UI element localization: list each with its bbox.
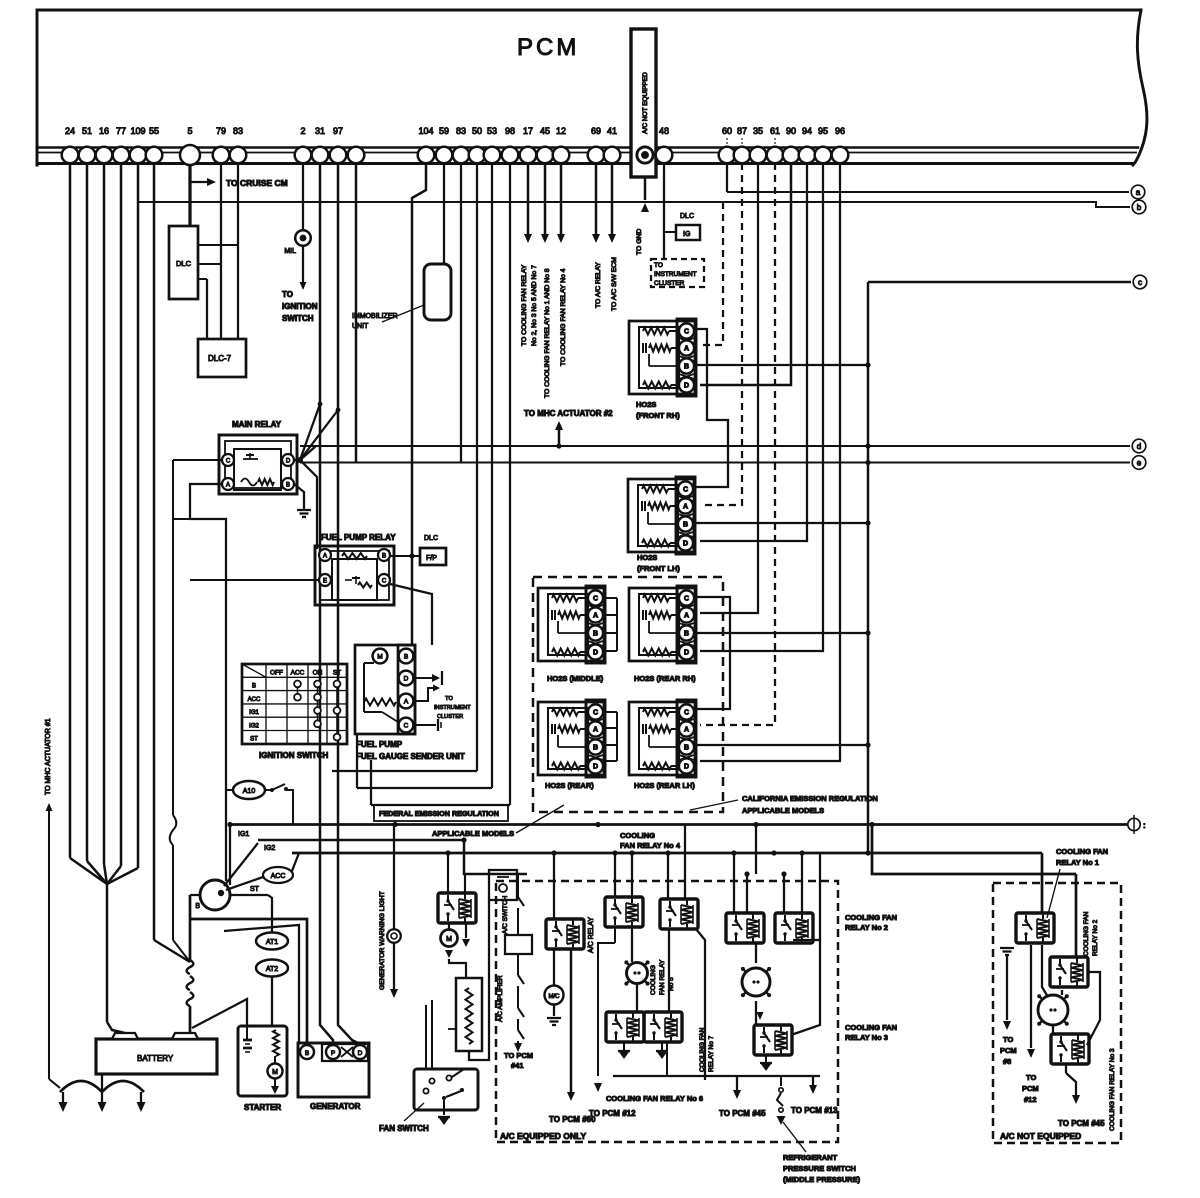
svg-text:D: D — [286, 458, 291, 464]
svg-text:P: P — [331, 1050, 335, 1057]
svg-text:D: D — [684, 650, 689, 657]
svg-text:M/C: M/C — [549, 994, 561, 1000]
svg-text:COOLING FAN: COOLING FAN — [845, 913, 897, 922]
svg-text:B: B — [684, 745, 689, 752]
svg-text:77: 77 — [116, 126, 126, 136]
svg-text:D: D — [683, 541, 688, 548]
svg-text:M: M — [446, 936, 452, 943]
svg-text:17: 17 — [523, 126, 533, 136]
svg-text:INSTRUMENT: INSTRUMENT — [654, 271, 697, 278]
svg-text:ST: ST — [250, 886, 260, 893]
svg-text:D: D — [593, 764, 598, 771]
svg-text:(MIDDLE PRESSURE): (MIDDLE PRESSURE) — [783, 1175, 861, 1184]
svg-text:104: 104 — [418, 126, 433, 136]
svg-text:ST: ST — [333, 670, 341, 677]
svg-text:C: C — [684, 596, 689, 603]
svg-text:C: C — [684, 710, 689, 717]
svg-text:RELAY No 3: RELAY No 3 — [845, 1033, 888, 1042]
svg-text:61: 61 — [770, 126, 780, 136]
svg-text:B: B — [593, 745, 598, 752]
svg-text:TO: TO — [1003, 1035, 1013, 1044]
svg-text:TO COOLING FAN RELAY No 4: TO COOLING FAN RELAY No 4 — [560, 268, 567, 366]
svg-text:C: C — [684, 329, 689, 336]
svg-text:IG: IG — [683, 231, 690, 238]
svg-text:INSTRUMENT: INSTRUMENT — [434, 705, 471, 711]
svg-text:PCM: PCM — [1022, 1084, 1039, 1093]
svg-text:TO: TO — [1026, 1073, 1036, 1082]
svg-text:STARTER: STARTER — [244, 1103, 281, 1112]
svg-text:FAN RELAY: FAN RELAY — [659, 959, 666, 995]
svg-text:A: A — [684, 613, 689, 620]
svg-text:87: 87 — [737, 126, 747, 136]
svg-text:12: 12 — [556, 126, 566, 136]
svg-text:COOLING FAN: COOLING FAN — [1083, 911, 1090, 956]
svg-text:A/C SWITCH: A/C SWITCH — [502, 895, 509, 934]
svg-text:CALIFORNIA EMISSION REGULATION: CALIFORNIA EMISSION REGULATION — [742, 794, 878, 803]
svg-text:IGNITION: IGNITION — [282, 302, 318, 311]
svg-text:TO A/C RELAY: TO A/C RELAY — [595, 262, 602, 308]
svg-text:FEDERAL EMISSION REGULATION: FEDERAL EMISSION REGULATION — [379, 809, 499, 818]
svg-text:M: M — [377, 654, 382, 661]
svg-text:B: B — [683, 522, 688, 529]
svg-text:D: D — [684, 383, 689, 390]
svg-text:APPLICABLE MODELS: APPLICABLE MODELS — [742, 806, 824, 815]
svg-text:HO2S (REAR LH): HO2S (REAR LH) — [634, 781, 695, 790]
svg-text:C: C — [226, 458, 231, 464]
svg-text:TO: TO — [654, 262, 663, 269]
svg-text:SWITCH: SWITCH — [282, 314, 314, 323]
svg-text:5: 5 — [187, 126, 192, 136]
svg-text:DLC: DLC — [680, 213, 694, 220]
svg-text:69: 69 — [591, 126, 601, 136]
svg-text:D: D — [684, 764, 689, 771]
svg-text:TO MHC ACTUATOR #1: TO MHC ACTUATOR #1 — [45, 718, 52, 795]
svg-text:BATTERY: BATTERY — [137, 1054, 174, 1063]
svg-text:AT1: AT1 — [266, 939, 278, 946]
svg-text:2: 2 — [300, 126, 305, 136]
svg-text:RELAY No 7: RELAY No 7 — [708, 1035, 715, 1072]
svg-text:#8: #8 — [1003, 1057, 1011, 1066]
svg-text:CLUSTER: CLUSTER — [437, 714, 463, 720]
svg-text:DLC: DLC — [424, 535, 438, 542]
svg-text:No 2, No 3 No 5 AND No 7: No 2, No 3 No 5 AND No 7 — [531, 265, 538, 346]
svg-text:A: A — [684, 346, 689, 353]
svg-text:C: C — [382, 578, 387, 584]
svg-text:B: B — [305, 1050, 309, 1057]
svg-text:A: A — [683, 504, 688, 511]
svg-text:e: e — [1137, 458, 1142, 467]
svg-text:GENERATOR WARNING LIGHT: GENERATOR WARNING LIGHT — [379, 891, 386, 990]
svg-text:REFRIGERANT: REFRIGERANT — [783, 1153, 838, 1162]
svg-text:RELAY No 2: RELAY No 2 — [845, 923, 888, 932]
svg-text:C: C — [404, 723, 409, 730]
svg-text:IG2: IG2 — [264, 845, 275, 852]
svg-text:A/C NOT EQUIPPED: A/C NOT EQUIPPED — [642, 72, 649, 134]
svg-text:COOLING FAN: COOLING FAN — [845, 1023, 897, 1032]
svg-text:COOLING: COOLING — [620, 831, 655, 840]
svg-text:50: 50 — [472, 126, 482, 136]
svg-text:TO COOLING FAN RELAY: TO COOLING FAN RELAY — [521, 264, 528, 346]
svg-text:C: C — [683, 487, 688, 494]
svg-text:48: 48 — [659, 126, 669, 136]
svg-text:b: b — [1137, 203, 1142, 212]
svg-text:95: 95 — [818, 126, 828, 136]
svg-text:83: 83 — [233, 126, 243, 136]
svg-text:IG1: IG1 — [238, 831, 249, 838]
svg-text:APPLICABLE MODELS: APPLICABLE MODELS — [432, 829, 514, 838]
svg-text:109: 109 — [130, 126, 145, 136]
svg-text:IG2: IG2 — [249, 723, 259, 729]
svg-text:A/C EQUIPPED ONLY: A/C EQUIPPED ONLY — [500, 1131, 586, 1141]
svg-text:A: A — [226, 482, 230, 488]
svg-text:#41: #41 — [511, 1061, 524, 1070]
svg-text:55: 55 — [149, 126, 159, 136]
svg-text:FAN RELAY No 4: FAN RELAY No 4 — [620, 841, 681, 850]
svg-text:A10: A10 — [243, 788, 256, 795]
svg-text:IGNITION SWITCH: IGNITION SWITCH — [259, 751, 329, 760]
svg-text:TO PCM #13: TO PCM #13 — [791, 1106, 838, 1115]
svg-text:79: 79 — [216, 126, 226, 136]
svg-text:94: 94 — [802, 126, 812, 136]
svg-text:TO CRUISE CM: TO CRUISE CM — [226, 178, 288, 188]
svg-text:F/P: F/P — [426, 555, 437, 562]
svg-text:B: B — [404, 654, 408, 661]
svg-text:C: C — [593, 596, 598, 603]
svg-text:A/C NOT EQUIPPED: A/C NOT EQUIPPED — [1000, 1131, 1081, 1141]
svg-text:TO PCM: TO PCM — [504, 1051, 533, 1060]
svg-text:A: A — [404, 699, 409, 706]
svg-text:FUEL PUMP RELAY: FUEL PUMP RELAY — [321, 533, 396, 542]
svg-text:53: 53 — [487, 126, 497, 136]
svg-text:24: 24 — [65, 126, 75, 136]
svg-text:16: 16 — [99, 126, 109, 136]
svg-text:TO MHC ACTUATOR #2: TO MHC ACTUATOR #2 — [524, 409, 613, 418]
svg-text:CLUSTER: CLUSTER — [654, 280, 685, 287]
svg-text:B: B — [684, 631, 689, 638]
svg-text:HO2S (MIDDLE): HO2S (MIDDLE) — [547, 674, 604, 683]
svg-text:COOLING FAN RELAY No 3: COOLING FAN RELAY No 3 — [1109, 1048, 1116, 1131]
svg-text:59: 59 — [439, 126, 449, 136]
svg-text:D: D — [404, 676, 409, 683]
svg-text:AT2: AT2 — [266, 966, 278, 973]
svg-text:HO2S: HO2S — [636, 400, 656, 409]
svg-text:OFF: OFF — [270, 670, 283, 677]
svg-text:E: E — [323, 578, 327, 584]
svg-text:TO GND: TO GND — [636, 229, 643, 255]
svg-text:35: 35 — [753, 126, 763, 136]
svg-text:A: A — [593, 727, 598, 734]
svg-text:FAN SWITCH: FAN SWITCH — [379, 1124, 429, 1133]
svg-text:TO: TO — [282, 290, 293, 299]
svg-text:ACC: ACC — [271, 873, 286, 880]
svg-text:B: B — [684, 364, 689, 371]
svg-text:60: 60 — [722, 126, 732, 136]
svg-text:MIL: MIL — [284, 248, 296, 255]
svg-text:83: 83 — [456, 126, 466, 136]
svg-text:C: C — [593, 710, 598, 717]
svg-text:96: 96 — [835, 126, 845, 136]
svg-text:ON: ON — [313, 670, 323, 677]
svg-text:#12: #12 — [1024, 1095, 1037, 1104]
svg-text:UNIT: UNIT — [352, 323, 369, 330]
svg-text:TO: TO — [445, 696, 453, 702]
svg-text:TO COOLING FAN RELAY No 1 AND: TO COOLING FAN RELAY No 1 AND No 8 — [544, 268, 551, 398]
svg-text::: : — [1143, 821, 1146, 830]
svg-text:B: B — [252, 684, 256, 690]
svg-text:B: B — [195, 903, 200, 910]
svg-text:(FRONT LH): (FRONT LH) — [637, 564, 680, 573]
svg-text:c: c — [1138, 278, 1142, 287]
svg-text:COOLING FAN RELAY No 6: COOLING FAN RELAY No 6 — [606, 1094, 703, 1103]
svg-text:98: 98 — [505, 126, 515, 136]
svg-text:51: 51 — [82, 126, 92, 136]
svg-text:TO PCM #45: TO PCM #45 — [1058, 1119, 1105, 1128]
svg-text:TO PCM #45: TO PCM #45 — [719, 1109, 766, 1118]
svg-text:RELAY No 2: RELAY No 2 — [1092, 919, 1099, 956]
svg-text:(FRONT RH): (FRONT RH) — [636, 411, 680, 420]
svg-text:ACC: ACC — [291, 670, 305, 677]
svg-text:RELAY No 1: RELAY No 1 — [1056, 858, 1099, 867]
svg-text:d: d — [1137, 442, 1141, 451]
svg-text:PCM: PCM — [1000, 1046, 1017, 1055]
svg-text:A/C AMPLIFIER: A/C AMPLIFIER — [497, 975, 504, 1022]
svg-text:COOLING: COOLING — [650, 965, 657, 995]
svg-text:B: B — [593, 631, 598, 638]
svg-text:B: B — [286, 482, 290, 488]
svg-text:41: 41 — [607, 126, 617, 136]
svg-text:A/C RELAY: A/C RELAY — [588, 917, 595, 953]
svg-text:A: A — [684, 727, 689, 734]
svg-text:COOLING FAN: COOLING FAN — [1056, 847, 1108, 856]
svg-text:B: B — [382, 553, 386, 559]
svg-text:GENERATOR: GENERATOR — [310, 1102, 361, 1111]
svg-text:A: A — [323, 553, 327, 559]
svg-text:MAIN RELAY: MAIN RELAY — [232, 420, 282, 429]
svg-text:TO A/C S/W ECM: TO A/C S/W ECM — [611, 257, 618, 311]
svg-text:D: D — [593, 650, 598, 657]
svg-text:M: M — [272, 1069, 278, 1076]
svg-text:D: D — [358, 1050, 363, 1057]
svg-text:PRESSURE SWITCH: PRESSURE SWITCH — [783, 1164, 856, 1173]
svg-text:DLC-7: DLC-7 — [208, 354, 232, 363]
svg-text:DLC: DLC — [176, 259, 192, 268]
svg-text:TO PCM #12: TO PCM #12 — [589, 1109, 636, 1118]
svg-text:90: 90 — [786, 126, 796, 136]
svg-text:PCM: PCM — [517, 34, 579, 61]
svg-text:HO2S: HO2S — [637, 553, 657, 562]
svg-text:a: a — [1136, 188, 1141, 197]
svg-text:HO2S (REAR RH): HO2S (REAR RH) — [634, 674, 696, 683]
svg-text:A: A — [593, 613, 598, 620]
svg-text:45: 45 — [540, 126, 550, 136]
svg-text:31: 31 — [315, 126, 325, 136]
svg-text:ACC: ACC — [248, 697, 261, 703]
svg-text:HO2S (REAR): HO2S (REAR) — [545, 781, 594, 790]
svg-text:FUEL PUMP: FUEL PUMP — [356, 740, 403, 749]
svg-text:FUEL GAUGE SENDER UNIT: FUEL GAUGE SENDER UNIT — [356, 752, 465, 761]
svg-text:IG1: IG1 — [249, 710, 259, 716]
svg-text:97: 97 — [333, 126, 343, 136]
svg-text:ST: ST — [250, 737, 258, 743]
